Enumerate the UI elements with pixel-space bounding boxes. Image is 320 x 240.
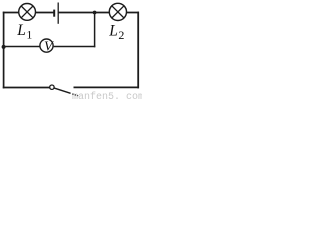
- battery long plate (positive): [57, 3, 59, 24]
- svg-text:manfen5. com: manfen5. com: [72, 91, 142, 101]
- lamp L2 cross: [112, 6, 124, 18]
- svg-text:V: V: [44, 40, 54, 55]
- node junction dot left: [2, 45, 6, 49]
- battery short plate (negative): [53, 10, 55, 17]
- lamp L1 cross: [21, 6, 33, 18]
- svg-text:L: L: [108, 22, 118, 39]
- wire top left segment: [3, 12, 54, 14]
- svg-text:2: 2: [118, 28, 124, 42]
- svg-text:L: L: [16, 22, 26, 39]
- node junction dot top: [93, 11, 97, 15]
- voltmeter branch: vertical wire from top junction: [94, 13, 96, 48]
- svg-text:1: 1: [26, 27, 32, 41]
- background: [0, 0, 142, 101]
- voltmeter branch: horizontal wire left of V: [3, 46, 40, 48]
- switch blade (open): [54, 88, 70, 93]
- wire bottom left segment: [3, 87, 50, 89]
- voltmeter U circle: [40, 39, 53, 52]
- wire left vertical: [3, 12, 5, 89]
- wire top right segment: [58, 12, 139, 14]
- lamp L2 circle: [109, 3, 126, 20]
- switch contact circle: [50, 85, 54, 89]
- switch blade dotted tip: [72, 93, 74, 95]
- wire bottom right segment: [74, 86, 140, 88]
- wire right vertical: [137, 12, 139, 89]
- voltmeter branch: horizontal wire right of V: [54, 46, 96, 48]
- lamp L1 circle: [19, 4, 36, 21]
